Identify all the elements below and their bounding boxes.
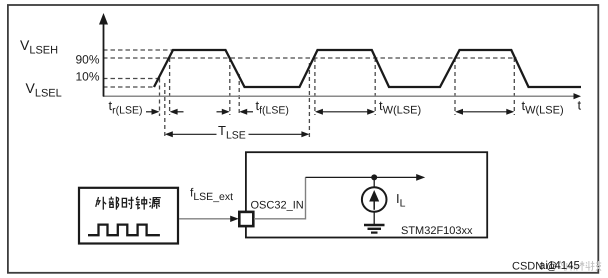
svg-text:fLSE_ext: fLSE_ext [190,186,233,204]
svg-text:ai14145: ai14145 [539,260,580,272]
svg-text:tW(LSE): tW(LSE) [379,98,421,117]
svg-text:tf(LSE): tf(LSE) [256,98,289,117]
svg-text:tW(LSE): tW(LSE) [522,98,564,117]
svg-text:t: t [578,98,582,113]
svg-text:OSC32_IN: OSC32_IN [251,200,304,212]
svg-text:STM32F103xx: STM32F103xx [401,225,473,237]
svg-text:tr(LSE): tr(LSE) [109,98,143,117]
svg-text:10%: 10% [75,70,99,84]
svg-text:VLSEL: VLSEL [26,80,62,100]
svg-text:TLSE: TLSE [218,123,246,142]
svg-text:IL: IL [396,191,406,210]
svg-text:90%: 90% [75,53,99,67]
svg-text:VLSEH: VLSEH [20,37,58,57]
